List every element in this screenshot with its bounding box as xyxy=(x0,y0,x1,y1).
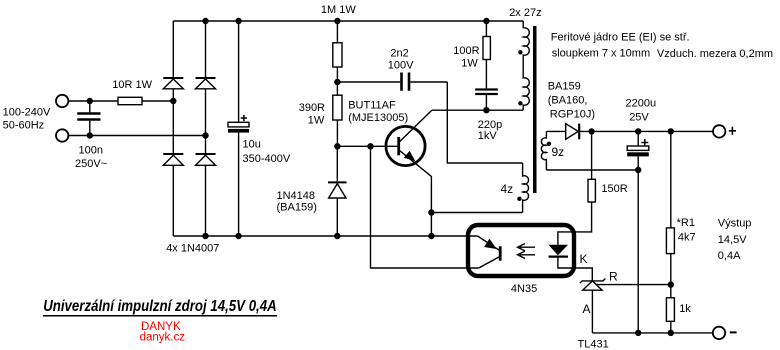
svg-text:100n: 100n xyxy=(79,145,103,157)
svg-text:Univerzální impulzní zdroj 14,: Univerzální impulzní zdroj 14,5V 0,4A xyxy=(43,298,277,315)
node 1M/390R/2n2 xyxy=(334,79,340,85)
svg-text:350-400V: 350-400V xyxy=(243,153,291,165)
node AC1/100n junction xyxy=(87,98,93,104)
svg-text:Feritové jádro EE (EI) se stř.: Feritové jádro EE (EI) se stř. xyxy=(551,31,690,43)
svg-text:1N4148: 1N4148 xyxy=(277,190,316,202)
svg-text:RGP10J): RGP10J) xyxy=(550,109,595,121)
wire base xyxy=(337,145,398,147)
svg-text:4k7: 4k7 xyxy=(678,232,696,244)
svg-text:1k: 1k xyxy=(679,303,691,315)
svg-text:250V~: 250V~ xyxy=(75,158,107,170)
wire ground down to bottom output rail xyxy=(637,170,639,333)
wire bottom DC rail xyxy=(173,235,477,237)
resistor 1M 1W xyxy=(333,21,342,95)
optocoupler U1 4N35 xyxy=(468,225,592,281)
transformer TR1 primary 2x27z xyxy=(523,21,529,110)
4z phase dot xyxy=(517,197,521,201)
node bottom out / 1k xyxy=(668,330,674,336)
node emitter / 4z return xyxy=(428,209,434,215)
svg-text:1W: 1W xyxy=(461,57,478,69)
bridge diode D3 (bottom left) xyxy=(163,154,183,165)
svg-text:1M 1W: 1M 1W xyxy=(321,4,356,16)
capacitor C4 220p 1kV xyxy=(475,90,498,111)
output terminal plus xyxy=(713,125,725,137)
title underline xyxy=(43,315,277,317)
AC input terminal top xyxy=(56,95,68,107)
bridge diode D4 (bottom right) xyxy=(196,154,216,165)
plus sign at output xyxy=(729,127,736,135)
output terminal minus xyxy=(713,327,725,339)
primary phase dot lower xyxy=(518,101,522,105)
node divider xyxy=(668,281,674,287)
svg-text:2x 27z: 2x 27z xyxy=(509,7,541,19)
transistor Q1 BUT11AF xyxy=(386,110,432,236)
svg-text:danyk.cz: danyk.cz xyxy=(140,332,186,344)
node sec rail / 150R xyxy=(588,128,594,134)
node ground rail / 2200u xyxy=(635,167,641,173)
resistor 150R xyxy=(558,131,596,244)
svg-text:25V: 25V xyxy=(629,111,649,123)
svg-text:1W: 1W xyxy=(308,114,325,126)
svg-text:sloupkem 7 x 10mm: sloupkem 7 x 10mm xyxy=(552,47,650,59)
svg-text:K: K xyxy=(580,252,588,266)
node bridge AC1 xyxy=(170,98,176,104)
capacitor C3 2n2 100V xyxy=(337,73,447,91)
wire top DC rail xyxy=(173,20,523,22)
wire AC live from terminal to 10R xyxy=(69,100,118,102)
svg-text:4N35: 4N35 xyxy=(511,283,537,295)
svg-text:10u: 10u xyxy=(243,139,261,151)
node bottom out / ground xyxy=(635,330,641,336)
node sec rail / R1 xyxy=(668,128,674,134)
node top rail / 1M xyxy=(334,18,340,24)
wire 4z return xyxy=(431,212,522,214)
svg-text:(MJE13005): (MJE13005) xyxy=(348,112,408,124)
wire secondary output rail xyxy=(579,130,713,132)
regulator TL431 xyxy=(580,279,606,333)
svg-text:4z: 4z xyxy=(501,182,514,196)
svg-text:390R: 390R xyxy=(299,102,325,114)
svg-text:100R: 100R xyxy=(453,45,479,57)
node base / opto return xyxy=(367,143,373,149)
wire collector to primary xyxy=(432,109,523,111)
transformer secondary 9z xyxy=(541,131,546,170)
svg-text:10R 1W: 10R 1W xyxy=(112,79,152,91)
node top rail / bridge col2 xyxy=(202,18,208,24)
resistor 1k xyxy=(666,298,674,333)
capacitor C5 2200u 25V xyxy=(627,131,649,170)
svg-text:Výstup: Výstup xyxy=(718,218,752,230)
9z phase dot xyxy=(547,142,551,146)
svg-text:R: R xyxy=(609,269,618,283)
wire bridge column 2 xyxy=(205,21,207,236)
node bottom rail / 10u xyxy=(235,233,241,239)
AC input terminal bottom xyxy=(56,129,68,141)
transformer aux winding 4z xyxy=(523,163,529,213)
svg-text:TL431: TL431 xyxy=(578,338,609,350)
wire secondary ground rail xyxy=(546,169,638,171)
bridge diode D2 (top right) xyxy=(196,78,216,89)
node AC2/100n junction xyxy=(87,132,93,138)
resistor 10R 1W xyxy=(118,97,142,104)
transformer core xyxy=(533,26,537,193)
node bottom rail / bridge col2 xyxy=(202,233,208,239)
svg-text:A: A xyxy=(583,302,591,316)
svg-text:0,4A: 0,4A xyxy=(718,250,741,262)
node sec rail / 2200u xyxy=(635,128,641,134)
svg-text:50-60Hz: 50-60Hz xyxy=(3,119,45,131)
svg-text:2n2: 2n2 xyxy=(390,48,408,60)
bridge diode D1 (top left) xyxy=(163,78,183,89)
svg-text:150R: 150R xyxy=(601,183,627,195)
wire bridge column 1 xyxy=(172,21,174,236)
resistor 100R 1W xyxy=(483,21,490,88)
node bottom rail / emitter xyxy=(428,233,434,239)
diode BA159 output rectifier xyxy=(566,124,580,140)
svg-text:BUT11AF: BUT11AF xyxy=(348,99,396,111)
node collector / 220p xyxy=(483,107,489,113)
wire opto emitter return to base node xyxy=(371,146,479,268)
svg-text:14,5V: 14,5V xyxy=(718,234,747,246)
diode 1N4148 (BA159) xyxy=(328,146,347,236)
svg-text:(BA160,: (BA160, xyxy=(548,94,588,106)
capacitor C2 10u 350-400V electrolytic xyxy=(228,21,249,236)
wire 9z to diode xyxy=(546,130,565,132)
wire bottom output rail xyxy=(592,332,712,334)
svg-text:BA159: BA159 xyxy=(548,80,581,92)
svg-text:*R1: *R1 xyxy=(677,217,695,229)
svg-text:100V: 100V xyxy=(388,59,414,71)
primary phase dot upper xyxy=(518,50,522,54)
svg-text:(BA159): (BA159) xyxy=(277,201,317,213)
capacitor C1 100n xyxy=(77,101,100,136)
node bottom rail / 1N4148 xyxy=(334,233,340,239)
wire 10R to bridge node xyxy=(142,100,173,102)
wire TL431 ref xyxy=(596,284,670,286)
svg-text:4x 1N4007: 4x 1N4007 xyxy=(166,242,219,254)
svg-text:1kV: 1kV xyxy=(478,130,498,142)
minus sign at output xyxy=(730,331,737,333)
node top rail / 10u xyxy=(235,18,241,24)
wire 2n2 to 4z winding xyxy=(447,82,522,163)
node base drive xyxy=(334,143,340,149)
resistor R1 4k7 xyxy=(666,131,674,297)
svg-text:Vzduch. mezera 0,2mm: Vzduch. mezera 0,2mm xyxy=(657,48,773,60)
svg-text:9z: 9z xyxy=(552,145,565,159)
wire AC neutral from terminal to bridge xyxy=(69,135,206,137)
resistor 390R 1W xyxy=(333,95,342,146)
svg-text:2200u: 2200u xyxy=(626,97,657,109)
svg-text:100-240V: 100-240V xyxy=(3,107,51,119)
node bridge AC2 xyxy=(202,132,208,138)
node top rail / 100R xyxy=(483,18,489,24)
